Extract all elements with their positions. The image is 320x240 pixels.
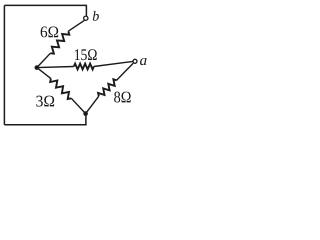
wire lead from 6-ohm resistor to terminal b xyxy=(68,20,84,31)
resistor 6-ohm zigzag xyxy=(50,31,69,53)
wire lead from 3-ohm resistor to bottom junction xyxy=(71,98,85,113)
label b xyxy=(93,11,99,21)
wire bottom from bottom-left corner to below bottom junction xyxy=(4,124,86,126)
label a xyxy=(140,58,146,65)
wire left side xyxy=(3,5,5,124)
wire vertical drop to terminal b xyxy=(85,5,87,16)
wire lead from 8-ohm resistor to bottom junction xyxy=(86,96,99,113)
wire vertical from bottom wire up to bottom junction xyxy=(85,114,87,125)
node bottom junction dot xyxy=(83,111,88,116)
label 15-ohm xyxy=(75,49,97,60)
wire lead from left junction to 15-ohm resistor xyxy=(37,67,74,68)
label 3-ohm xyxy=(36,96,54,107)
resistor 3-ohm zigzag xyxy=(50,78,71,99)
resistor 15-ohm zigzag xyxy=(74,64,94,70)
terminal b open circle xyxy=(84,16,88,20)
node left junction dot xyxy=(35,65,40,70)
wire lead from 15-ohm resistor to terminal a xyxy=(94,61,133,66)
resistor 8-ohm zigzag xyxy=(98,79,117,96)
wire lead from left junction to 3-ohm resistor xyxy=(37,68,51,79)
wire top from top-left corner to above terminal b xyxy=(4,4,87,6)
label 8-ohm xyxy=(114,92,131,103)
wire lead from terminal a to 8-ohm resistor xyxy=(117,63,134,80)
label 6-ohm xyxy=(41,26,59,37)
wire lead from left junction to 6-ohm resistor xyxy=(37,53,51,67)
terminal a open circle xyxy=(133,59,137,63)
